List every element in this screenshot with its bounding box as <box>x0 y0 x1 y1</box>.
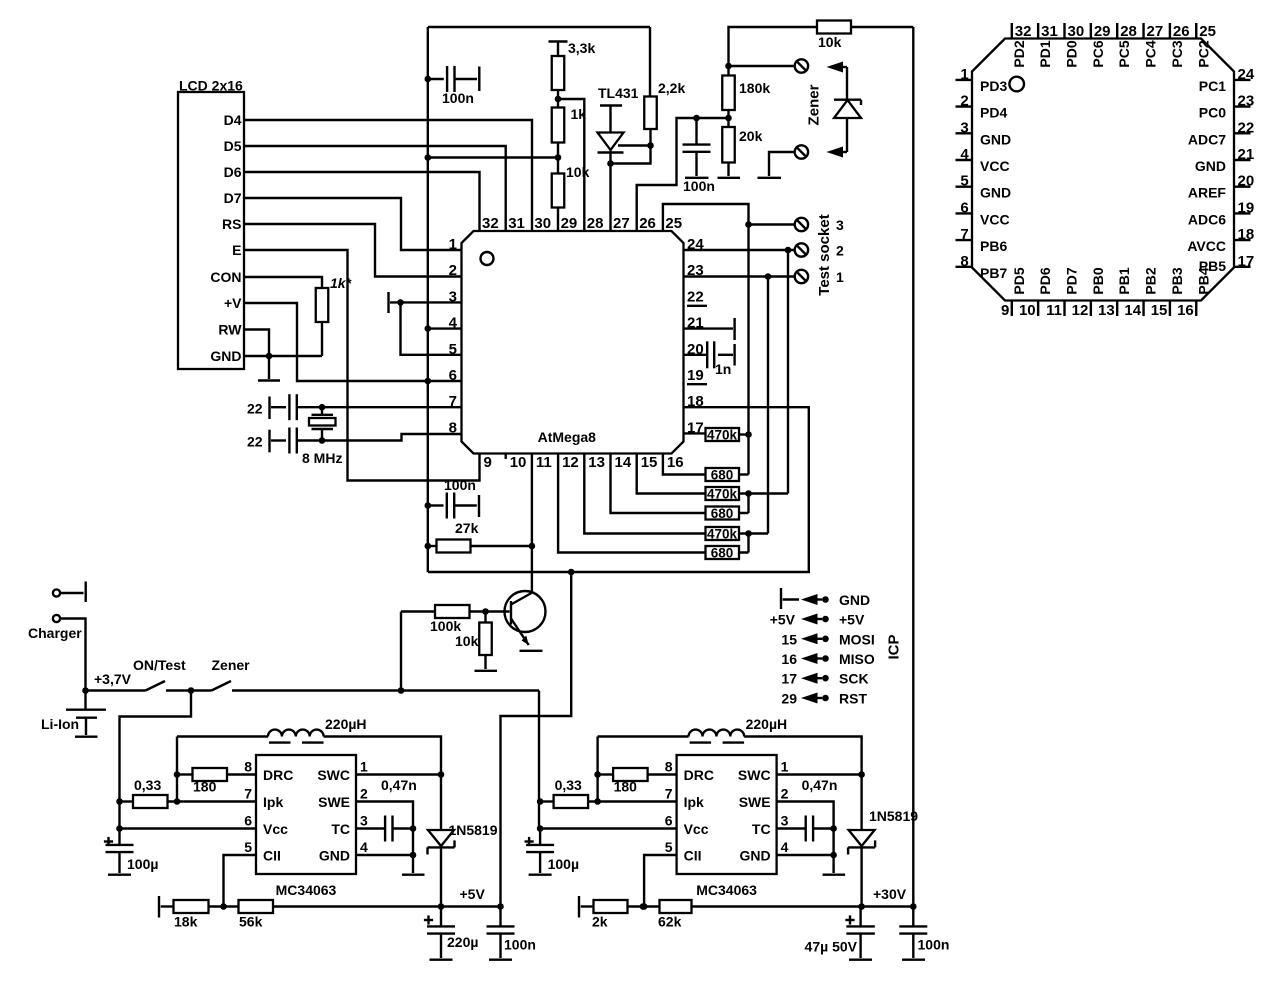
svg-text:19: 19 <box>687 367 704 384</box>
pinout pin 26 tick <box>1169 23 1171 39</box>
wire rail to 2,2k <box>649 27 651 97</box>
junction 1k/10k <box>555 154 562 161</box>
pinout outline AtMega8 (TQFP) <box>972 39 1234 301</box>
junction bus/27k <box>425 543 432 550</box>
svg-text:30: 30 <box>534 215 551 232</box>
svg-text:1n: 1n <box>715 361 731 377</box>
resistor 20k <box>722 127 735 163</box>
svg-text:15: 15 <box>1151 302 1168 319</box>
pinout pin 14 tick <box>1142 301 1144 317</box>
junction CII/feedback U2 <box>220 903 227 910</box>
wire 470k#2 to ts2 <box>749 492 789 494</box>
capacitor 100n (reset) <box>428 504 444 506</box>
probe arrow top <box>827 62 844 73</box>
svg-text:26: 26 <box>1173 23 1190 40</box>
wire GND row U4 <box>777 854 834 856</box>
svg-text:1N5819: 1N5819 <box>869 808 918 824</box>
capacitor 47µ 50V output <box>845 919 854 921</box>
pinout pin 15 tick <box>1169 301 1171 317</box>
svg-text:29: 29 <box>1094 23 1111 40</box>
pinout pin 19 tick <box>1234 212 1251 214</box>
resistor 56k <box>239 900 274 913</box>
svg-text:1N5819: 1N5819 <box>448 822 497 838</box>
resistor 1k <box>552 108 565 143</box>
svg-text:CON: CON <box>210 269 241 285</box>
crystal 8 MHz <box>321 407 323 414</box>
ground bar feedback U2 <box>158 896 160 918</box>
pinout pin 12 tick <box>1090 301 1092 317</box>
junction Ipk node U2 <box>174 798 181 805</box>
svg-text:14: 14 <box>1124 302 1141 319</box>
pinout pin 10 tick <box>1037 301 1039 317</box>
junction input/Vcc U4 <box>537 825 544 832</box>
ground 10k base <box>475 670 498 672</box>
wire CII row U2 <box>224 855 257 907</box>
svg-text:27: 27 <box>613 215 630 232</box>
pinout pin 28 tick <box>1116 23 1118 39</box>
wire +V to pin 6 (VCC) <box>244 303 462 381</box>
wire RW to GND row <box>244 330 269 357</box>
wire junction to pin 28 <box>558 99 584 231</box>
junction battery node <box>82 687 89 694</box>
pinout pin 27 tick <box>1142 23 1144 39</box>
svg-text:8: 8 <box>665 759 673 775</box>
wire SWC row U4 <box>777 773 862 775</box>
wire VCC bus vertical <box>427 27 429 572</box>
junction ts3 <box>745 221 752 228</box>
svg-text:23: 23 <box>1238 93 1255 110</box>
wire RS to pin 2 <box>244 224 462 277</box>
wire +30V top segment <box>729 27 818 66</box>
svg-text:+5V: +5V <box>839 612 865 628</box>
svg-text:MOSI: MOSI <box>839 631 875 647</box>
svg-text:1k*: 1k* <box>330 275 352 291</box>
junction xtal2 <box>319 437 326 444</box>
svg-text:PD0: PD0 <box>1064 40 1080 67</box>
pinout pin 29 tick <box>1090 23 1092 39</box>
pinout pin 25 tick <box>1195 23 1197 39</box>
svg-text:20: 20 <box>687 341 704 358</box>
resistor 62k <box>660 900 692 913</box>
wire E to pin 9 <box>244 250 480 481</box>
svg-text:GND: GND <box>980 185 1011 201</box>
wire pin 16 to 680#1 <box>663 454 706 475</box>
svg-text:GND: GND <box>210 348 241 364</box>
ground zener screw B <box>769 152 795 176</box>
junction bus/100n <box>425 76 432 83</box>
wire 180k to 20k <box>727 110 729 127</box>
svg-text:PD3: PD3 <box>980 78 1007 94</box>
svg-text:17: 17 <box>687 419 704 436</box>
svg-text:18k: 18k <box>174 914 198 930</box>
svg-text:29: 29 <box>561 215 578 232</box>
pinout pin 20 tick <box>1234 185 1251 187</box>
svg-text:100µ: 100µ <box>127 856 158 872</box>
wire 1k to 10k <box>557 143 559 174</box>
junction bus/100n reset <box>425 502 432 509</box>
wire pin3 to pin5 <box>401 302 462 354</box>
svg-text:100n: 100n <box>918 937 950 953</box>
resistor 470k #2 <box>706 487 740 500</box>
junction SWC/diode U2 <box>438 771 445 778</box>
svg-text:7: 7 <box>665 786 673 802</box>
pinout pin 21 tick <box>1234 159 1251 161</box>
capacitor 100n output U4 <box>912 907 914 927</box>
svg-text:12: 12 <box>562 454 579 471</box>
svg-text:100n: 100n <box>444 477 476 493</box>
junction 470k#2 <box>745 490 752 497</box>
svg-text:28: 28 <box>1120 23 1137 40</box>
junction AVCC/branch <box>568 569 575 576</box>
svg-text:PB4: PB4 <box>1195 267 1211 294</box>
wire CON to R 1k* <box>244 277 322 288</box>
svg-text:AVCC: AVCC <box>1187 238 1226 254</box>
wire Vcc row U4 <box>540 827 677 829</box>
screw terminal 2 <box>795 243 808 256</box>
resistor 680 #1 <box>706 468 740 481</box>
wire pair2 link <box>739 494 749 514</box>
junction 27k/pin11 <box>529 543 536 550</box>
wire zener switch to right converter <box>538 691 540 829</box>
junction ts1 <box>765 273 772 280</box>
svg-text:1: 1 <box>360 759 368 775</box>
svg-text:+5V: +5V <box>770 612 796 628</box>
wire pin 11 collector <box>531 454 533 592</box>
capacitor 0,47n U4 <box>777 827 806 829</box>
svg-text:15: 15 <box>641 454 658 471</box>
svg-text:470k: 470k <box>707 487 738 502</box>
svg-text:RST: RST <box>839 691 867 707</box>
svg-text:3: 3 <box>960 119 968 136</box>
svg-text:22: 22 <box>247 434 263 450</box>
svg-text:10: 10 <box>510 454 527 471</box>
resistor 470k #3 <box>706 527 740 540</box>
svg-text:12: 12 <box>1072 302 1089 319</box>
svg-text:18: 18 <box>1238 226 1255 243</box>
resistor 27k <box>428 545 437 547</box>
svg-text:RS: RS <box>222 216 241 232</box>
junction GND row U2 <box>410 852 417 859</box>
screw terminal 1 <box>795 270 808 283</box>
svg-text:56k: 56k <box>239 914 263 930</box>
svg-text:10k: 10k <box>818 34 842 50</box>
junction input/Ipk U2 <box>116 798 123 805</box>
svg-text:ON/Test: ON/Test <box>133 657 186 673</box>
wire to screw 3 <box>749 223 795 225</box>
svg-text:1: 1 <box>781 759 789 775</box>
junction +5V/220u <box>438 903 445 910</box>
svg-text:PB6: PB6 <box>980 238 1007 254</box>
screw terminal zener A <box>795 59 808 72</box>
svg-text:32: 32 <box>1015 23 1032 40</box>
wire pin 12 to 680#3 <box>558 454 705 553</box>
ground emitter <box>520 650 543 652</box>
capacitor 100µ input U2 <box>104 840 113 842</box>
svg-text:AREF: AREF <box>1188 185 1227 201</box>
svg-text:TC: TC <box>752 821 771 837</box>
svg-text:PC5: PC5 <box>1116 40 1132 67</box>
svg-text:+30V: +30V <box>873 886 907 902</box>
capacitor 1n at AREF <box>684 354 708 356</box>
svg-text:PB3: PB3 <box>1169 267 1185 294</box>
junction bus/divider <box>425 154 432 161</box>
svg-text:SWC: SWC <box>317 767 350 783</box>
ground bar feedback U4 <box>578 896 580 918</box>
ground bar pins 3/5 <box>387 292 389 313</box>
svg-text:PD5: PD5 <box>1011 267 1027 294</box>
capacitor 0,47n U2 <box>356 827 385 829</box>
svg-text:D5: D5 <box>224 138 242 154</box>
svg-text:PC1: PC1 <box>1199 78 1226 94</box>
wire GND row U2 <box>356 854 413 856</box>
MC34063 U4 <box>677 755 777 874</box>
svg-text:+5V: +5V <box>460 886 486 902</box>
svg-text:SWE: SWE <box>739 794 771 810</box>
resistor 680 #3 <box>706 546 740 559</box>
svg-text:7: 7 <box>244 786 252 802</box>
svg-text:PC2: PC2 <box>1195 40 1211 67</box>
junction TL431 anode <box>607 160 614 167</box>
junction pin4/bus <box>425 325 432 332</box>
junction 470k#1 <box>745 431 752 438</box>
svg-text:PB0: PB0 <box>1090 267 1106 294</box>
junction input/Ipk U4 <box>537 798 544 805</box>
schottky diode 1N5819 U4 <box>860 775 862 831</box>
wire pin 15 to 470k#2 <box>637 454 706 494</box>
svg-text:Ipk: Ipk <box>263 794 283 810</box>
wire 3,3k to 1k <box>557 90 559 108</box>
ICP ground bar <box>780 588 782 609</box>
ground MC34063 U2 <box>402 874 425 876</box>
schottky diode 1N5819 U2 <box>440 775 442 831</box>
wire ts1 down <box>767 277 769 534</box>
pinout pin 6 tick <box>956 212 973 214</box>
svg-text:18: 18 <box>687 393 704 410</box>
charger pin 1 <box>53 589 60 596</box>
wire pin 17 to 470k <box>684 432 706 434</box>
svg-text:GND: GND <box>319 848 350 864</box>
wire +30V rail <box>862 905 914 907</box>
screw terminal 3 <box>795 218 808 231</box>
junction pin3 gnd <box>397 299 404 306</box>
wire D6 to pin 32 <box>244 172 480 231</box>
wire switch to left converter <box>120 691 192 829</box>
capacitor 100µ input U4 <box>525 840 534 842</box>
svg-text:VCC: VCC <box>980 158 1010 174</box>
svg-text:31: 31 <box>508 215 525 232</box>
wire D5 to pin 31 <box>244 146 506 231</box>
resistor 3,3k <box>552 56 565 90</box>
svg-text:100n: 100n <box>442 90 474 106</box>
svg-text:Vcc: Vcc <box>684 821 709 837</box>
svg-text:11: 11 <box>536 454 552 471</box>
wire AVCC branch to +5V <box>501 572 572 907</box>
junction 100k/switch rail <box>398 687 405 694</box>
pin 19 stub <box>687 383 707 385</box>
svg-text:20: 20 <box>1238 173 1255 190</box>
transistor Q1 <box>505 591 546 632</box>
svg-text:3: 3 <box>360 813 368 829</box>
svg-text:13: 13 <box>1098 302 1115 319</box>
pinout pin 23 tick <box>1234 105 1251 107</box>
resistor 18k <box>161 905 174 907</box>
svg-text:GND: GND <box>1195 158 1226 174</box>
svg-text:1: 1 <box>449 236 457 253</box>
pin 10 stub <box>505 454 507 460</box>
wire TL431 ref loop <box>611 146 651 164</box>
svg-text:24: 24 <box>1238 66 1255 83</box>
resistor 180 U4 <box>598 773 614 775</box>
svg-text:21: 21 <box>1238 146 1255 163</box>
svg-text:25: 25 <box>1199 23 1216 40</box>
svg-text:15: 15 <box>781 631 797 647</box>
resistor 1k* (contrast) <box>316 288 329 322</box>
svg-text:PC0: PC0 <box>1199 105 1226 121</box>
pinout pin 2 tick <box>956 105 973 107</box>
svg-text:PB1: PB1 <box>1116 267 1132 294</box>
svg-text:17: 17 <box>781 671 797 687</box>
wire 2,2k to ref node <box>649 129 651 146</box>
svg-text:8: 8 <box>244 759 252 775</box>
charger pin 2 <box>53 615 60 622</box>
svg-text:RW: RW <box>218 322 242 338</box>
screw terminal zener B <box>795 145 808 158</box>
svg-text:PD4: PD4 <box>980 105 1007 121</box>
svg-text:10k: 10k <box>566 164 590 180</box>
svg-text:6: 6 <box>244 813 252 829</box>
junction CII/62k <box>640 903 647 910</box>
svg-text:2: 2 <box>781 786 789 802</box>
svg-text:PD6: PD6 <box>1037 267 1053 294</box>
pinout pin 1 tick <box>956 79 973 81</box>
junction TC/SWE U4 <box>830 825 837 832</box>
capacitor 100n (top left) <box>428 78 444 80</box>
svg-text:680: 680 <box>711 546 734 561</box>
svg-text:62k: 62k <box>658 914 682 930</box>
svg-text:8: 8 <box>960 253 968 270</box>
svg-text:100n: 100n <box>504 937 536 953</box>
pinout pin 24 tick <box>1234 79 1251 81</box>
wire GND row <box>244 355 322 357</box>
resistor 10k (divider) <box>552 174 565 208</box>
wire pin 18 loop (AVCC) <box>428 407 809 572</box>
svg-text:TL431: TL431 <box>598 85 639 101</box>
junction TC/SWE U2 <box>410 825 417 832</box>
svg-text:1: 1 <box>960 66 968 83</box>
wire SWC row U2 <box>356 773 441 775</box>
svg-text:16: 16 <box>781 651 797 667</box>
svg-text:PC3: PC3 <box>1169 40 1185 67</box>
svg-text:1k: 1k <box>571 106 587 122</box>
junction input/Vcc U2 <box>116 825 123 832</box>
wire 1k* to GND row <box>321 322 323 356</box>
wire 470k#1 right <box>739 433 749 435</box>
svg-text:11: 11 <box>1046 302 1062 319</box>
battery Li-Ion <box>84 691 86 710</box>
wire SWE row U4 <box>777 802 834 829</box>
junction 180k top <box>725 63 732 70</box>
svg-text:5: 5 <box>665 839 673 855</box>
svg-text:Zener: Zener <box>212 657 251 673</box>
inductor 220µH U4 <box>598 735 689 737</box>
svg-text:4: 4 <box>960 146 969 163</box>
capacitor 220µ output <box>424 919 433 921</box>
svg-text:180k: 180k <box>739 80 770 96</box>
svg-text:2: 2 <box>836 243 844 259</box>
svg-text:22: 22 <box>1238 119 1255 136</box>
wire divider mid to pin 26 <box>637 118 729 231</box>
ground LCD <box>268 356 270 379</box>
svg-text:2: 2 <box>960 93 968 110</box>
svg-text:GND: GND <box>980 131 1011 147</box>
wire pair3 link <box>739 534 749 553</box>
ground 20k <box>727 163 729 177</box>
svg-text:VCC: VCC <box>980 211 1010 227</box>
svg-text:5: 5 <box>244 839 252 855</box>
svg-text:6: 6 <box>449 367 457 384</box>
pin 21 wire to bar <box>684 327 734 329</box>
svg-text:D6: D6 <box>224 164 242 180</box>
zener diode under test <box>834 100 861 118</box>
resistor 180 U2 <box>177 773 193 775</box>
resistor 10k (base) <box>484 612 486 623</box>
junction GND row <box>266 353 273 360</box>
LCD 2x16 connector J1 <box>178 92 244 369</box>
wire pin 24 to screw 2 <box>684 249 795 251</box>
svg-text:MC34063: MC34063 <box>696 882 757 898</box>
wire CII row U4 <box>644 855 677 907</box>
svg-text:PD7: PD7 <box>1064 267 1080 294</box>
junction 470k#3 <box>745 530 752 537</box>
wire 100k to switch rail <box>400 612 402 691</box>
svg-text:10k: 10k <box>455 633 479 649</box>
junction +V/VCC bus <box>425 378 432 385</box>
svg-text:680: 680 <box>711 468 734 483</box>
pinout pin 17 tick <box>1234 266 1251 268</box>
svg-text:D7: D7 <box>224 190 242 206</box>
svg-text:21: 21 <box>687 315 704 332</box>
svg-text:Ipk: Ipk <box>684 794 704 810</box>
pinout pin 13 tick <box>1116 301 1118 317</box>
svg-text:LCD 2x16: LCD 2x16 <box>179 78 243 94</box>
resistor 180k <box>727 66 729 76</box>
wire divider to VCC bus <box>428 156 558 158</box>
svg-text:ICP: ICP <box>886 634 903 659</box>
svg-text:180: 180 <box>193 779 217 795</box>
junction DRC node U4 <box>596 737 598 802</box>
svg-text:13: 13 <box>588 454 605 471</box>
svg-text:CII: CII <box>263 848 281 864</box>
svg-text:23: 23 <box>687 262 704 279</box>
wire Vcc row U2 <box>120 827 257 829</box>
svg-text:E: E <box>232 242 241 258</box>
svg-text:GND: GND <box>839 592 870 608</box>
ICP row GND <box>801 594 818 605</box>
pinout pin 31 tick <box>1037 23 1039 39</box>
svg-text:+V: +V <box>224 295 242 311</box>
svg-text:1: 1 <box>836 269 844 285</box>
svg-text:30: 30 <box>1068 23 1085 40</box>
svg-text:PB2: PB2 <box>1143 267 1159 294</box>
svg-text:0,33: 0,33 <box>134 777 161 793</box>
resistor 680 #2 <box>706 507 740 520</box>
svg-text:SWE: SWE <box>318 794 350 810</box>
svg-text:220µ: 220µ <box>447 934 478 950</box>
wire ts2 down <box>787 250 789 494</box>
svg-text:220µH: 220µH <box>746 716 788 732</box>
svg-text:Li-Ion: Li-Ion <box>41 716 79 732</box>
junction +30V/47u <box>858 903 865 910</box>
